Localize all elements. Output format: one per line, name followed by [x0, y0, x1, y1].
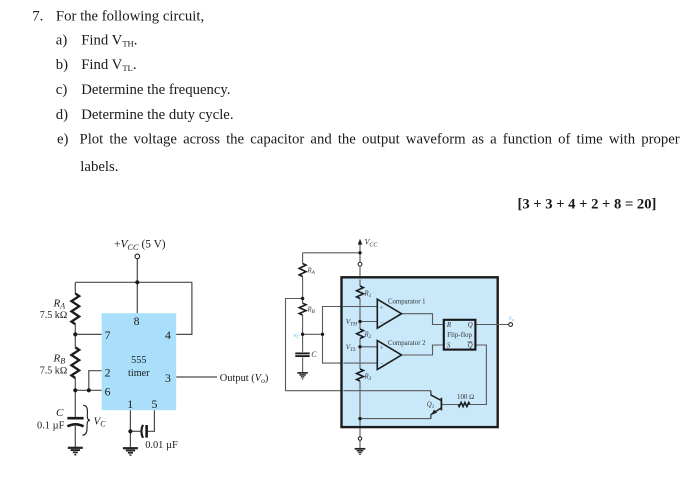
svg-text:+: +	[380, 303, 384, 311]
svg-text:Flip-flop: Flip-flop	[447, 331, 472, 339]
svg-text:d): d)	[56, 107, 68, 123]
svg-text:−: −	[380, 318, 384, 326]
svg-text:Plot the voltage across the ca: Plot the voltage across the capacitor an…	[80, 132, 680, 148]
svg-text:Output (Vo): Output (Vo)	[220, 373, 269, 385]
svg-text:−: −	[380, 360, 384, 368]
svg-text:1: 1	[127, 397, 133, 411]
svg-text:Comparator 1: Comparator 1	[388, 299, 426, 306]
svg-text:a): a)	[56, 33, 68, 49]
svg-text:4: 4	[165, 328, 171, 342]
svg-text:2: 2	[105, 365, 111, 379]
svg-text:VC: VC	[94, 416, 107, 429]
svg-text:555: 555	[131, 355, 146, 366]
svg-text:[3 + 3 + 4 + 2 + 8 = 20]: [3 + 3 + 4 + 2 + 8 = 20]	[518, 196, 657, 212]
svg-text:Q: Q	[468, 342, 473, 350]
svg-text:8: 8	[134, 314, 140, 328]
svg-text:7.5 kΩ: 7.5 kΩ	[40, 310, 68, 321]
svg-text:6: 6	[105, 384, 111, 398]
svg-text:vo: vo	[509, 315, 515, 323]
svg-text:VCC: VCC	[365, 238, 379, 249]
svg-text:RB: RB	[53, 353, 66, 366]
svg-text:5: 5	[152, 397, 158, 411]
svg-text:0.1 µF: 0.1 µF	[37, 421, 65, 432]
svg-text:+: +	[380, 344, 384, 352]
svg-text:3: 3	[165, 371, 171, 385]
svg-text:7: 7	[105, 328, 111, 342]
svg-text:vC: vC	[294, 332, 301, 341]
svg-text:RA: RA	[307, 268, 316, 277]
svg-text:Comparator 2: Comparator 2	[388, 340, 426, 347]
svg-text:+VCC (5 V): +VCC (5 V)	[114, 239, 166, 252]
svg-text:S: S	[447, 342, 451, 350]
svg-text:RA: RA	[53, 298, 66, 311]
svg-text:e): e)	[57, 132, 69, 148]
svg-text:labels.: labels.	[80, 159, 118, 175]
svg-text:Q: Q	[468, 321, 473, 329]
svg-text:7.5 kΩ: 7.5 kΩ	[40, 366, 68, 377]
svg-text:100 Ω: 100 Ω	[457, 394, 474, 401]
svg-text:RB: RB	[307, 307, 316, 316]
svg-text:Determine the frequency.: Determine the frequency.	[81, 82, 230, 98]
svg-text:For the following circuit,: For the following circuit,	[56, 9, 204, 25]
svg-text:0.01 µF: 0.01 µF	[145, 440, 178, 451]
svg-text:b): b)	[56, 57, 68, 73]
svg-text:Determine the duty cycle.: Determine the duty cycle.	[81, 107, 233, 123]
svg-text:Find VTL.: Find VTL.	[81, 57, 136, 73]
svg-text:C: C	[311, 350, 317, 359]
svg-text:C: C	[56, 407, 64, 419]
svg-text:Find VTH.: Find VTH.	[81, 33, 137, 49]
svg-text:R: R	[446, 321, 452, 329]
svg-text:7.: 7.	[32, 9, 43, 25]
svg-text:timer: timer	[128, 368, 150, 379]
svg-text:c): c)	[56, 82, 68, 98]
